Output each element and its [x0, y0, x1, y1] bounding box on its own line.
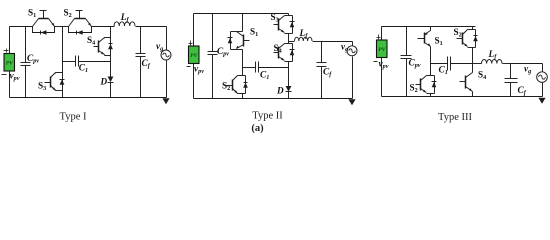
AC grid source vg (Type I) — [161, 50, 171, 60]
switch S4 IGBT with antiparallel diode (Type I) — [94, 37, 113, 57]
wire: grid branch vertical (Type I) — [166, 27, 168, 98]
switch S3 IGBT with antiparallel diode (Type III) — [457, 30, 478, 48]
wire: C1 horizontal link (Type I) — [63, 61, 111, 63]
wire: Type II top rail — [194, 13, 289, 15]
label S3 (Type II) — [271, 12, 279, 24]
minus terminal marker (Type II PV) — [187, 66, 191, 68]
capacitor Cf (Type II) — [317, 63, 327, 67]
wire: output node to grid branch (Type III) — [511, 63, 543, 65]
wire: leg1 middle (Type III) — [430, 47, 432, 76]
switch S1 IGBT (Type III) — [418, 31, 431, 47]
wire: S2 emitter to bottom rail (Type III) — [430, 94, 432, 97]
wire: Cf branch (Type II) — [321, 42, 323, 99]
label Cf (Type II) — [323, 68, 332, 79]
label Cpv (Type III) — [409, 59, 421, 70]
label v_pv (Type III) — [379, 60, 389, 71]
wire: Type II bottom rail — [194, 98, 353, 100]
wire: Type III top rail — [382, 26, 476, 28]
wire: S2 emitter to bottom rail (Type II) — [242, 94, 244, 99]
label Cpv (Type II) — [217, 47, 229, 58]
wire: Cf branch (Type III) — [510, 64, 512, 97]
capacitor C1 (Type I) — [76, 56, 79, 67]
svg-text:(a): (a) — [251, 123, 264, 134]
AC grid source vg (Type III) — [537, 72, 548, 83]
switch S1 IGBT with antiparallel diode (Type II) — [228, 32, 250, 50]
capacitor Cpv (Type III) — [401, 56, 412, 59]
wire: Lf input link (Type II) — [289, 41, 295, 43]
wire: Type II left branch vertical — [193, 14, 195, 99]
wire: Type II Cpv branch — [212, 14, 214, 99]
wire: S3 emitter to bottom rail (Type I) — [62, 91, 64, 98]
wire: leg1 top (Type III) — [430, 27, 432, 31]
label D (Type II) — [276, 86, 284, 96]
wire: leg1 top (Type II) — [242, 14, 244, 32]
wire: Lf to output node (Type II) — [313, 41, 322, 43]
label S2 (Type III) — [410, 83, 418, 95]
switch S2 IGBT with antiparallel diode (Type III) — [416, 76, 437, 94]
capacitor C1 (Type III) — [448, 57, 451, 71]
wire: Type I bottom rail — [10, 97, 167, 99]
label C1 (Type II) — [260, 71, 269, 82]
wire: D to bottom rail (Type I) — [110, 83, 112, 98]
label S4 (Type III) — [478, 70, 486, 82]
inductor Lf (Type II) — [295, 37, 313, 41]
wire: leg2 top (Type III) — [472, 27, 474, 30]
wire: leg2 top (Type II) — [288, 14, 290, 16]
switch S2 with antiparallel diode (Type I) — [69, 11, 92, 35]
label Lf (Type II) — [299, 29, 309, 40]
label S4 (Type II) — [274, 43, 282, 55]
label S3 (Type III) — [454, 27, 462, 39]
wire: S4 to C1 node to diode D (Type I) — [110, 56, 112, 77]
wire: junction drop between S1 and S2 (Type I) — [62, 27, 64, 73]
ground (Type I) — [162, 98, 169, 104]
minus terminal marker (Type I PV) — [2, 74, 7, 76]
switch S3 IGBT with antiparallel diode (Type I) — [45, 72, 65, 92]
label Lf (Type III) — [488, 50, 498, 61]
switch S2 IGBT with antiparallel diode (Type II) — [227, 76, 248, 94]
wire: Type III Cpv branch — [406, 27, 408, 97]
ground (Type III) — [538, 98, 545, 104]
switch S1 with antiparallel diode (Type I) — [33, 11, 55, 35]
wire: Type I Cpv branch — [25, 27, 27, 98]
label S3 (Type I) — [38, 81, 46, 93]
solar panel PV (Type I) — [4, 54, 15, 72]
wire: grid branch vertical (Type II) — [352, 42, 354, 99]
capacitor Cpv (Type I) — [21, 63, 31, 66]
label C1 (Type III) — [439, 66, 448, 77]
wire: Type I left branch vertical — [9, 27, 11, 98]
plus terminal marker (Type II PV) — [189, 41, 193, 46]
solar panel PV (Type III) — [377, 40, 388, 58]
label S1 (Type II) — [250, 27, 258, 39]
wire: Type I top rail segments — [10, 26, 167, 28]
label D (Type I) — [100, 77, 108, 87]
wire: C1 horizontal link (Type II) — [243, 67, 289, 69]
plus terminal marker (Type I PV) — [4, 49, 9, 53]
diode D (Type I) — [108, 77, 114, 83]
wire: output node to grid branch (Type II) — [322, 41, 353, 43]
label S2 (Type I) — [64, 8, 72, 20]
label v_pv (Type I) — [10, 72, 20, 83]
label S4 (Type I) — [87, 35, 95, 47]
diode D (Type II) — [286, 86, 292, 92]
wire: C1 horizontal link (Type III) — [431, 63, 473, 65]
caption Type I — [60, 112, 87, 123]
label vg (Type II) — [341, 43, 348, 54]
wire: S4 emitter to diode D (Type II) — [288, 62, 290, 87]
AC grid source vg (Type II) — [347, 46, 357, 56]
inductor Lf (Type I) — [114, 22, 135, 26]
svg-text:D: D — [276, 86, 284, 96]
wire: D to bottom rail (Type II) — [288, 92, 290, 99]
wire: Type III bottom rail — [382, 96, 543, 98]
svg-text:Type III: Type III — [438, 112, 472, 123]
caption Type III — [438, 112, 472, 123]
ground (Type II) — [348, 99, 355, 105]
wire: leg2 S3 to Lf node (Type II) — [288, 34, 290, 44]
solar panel PV (Type II) — [189, 46, 200, 64]
wire: Cf branch (Type I) — [140, 27, 142, 98]
label S2 (Type II) — [222, 81, 230, 93]
label Cf (Type III) — [518, 86, 527, 97]
switch S3 IGBT with antiparallel diode (Type II) — [274, 16, 295, 34]
wire: leg1 middle (Type II) — [242, 50, 244, 76]
caption Type II — [252, 111, 283, 122]
label C1 (Type I) — [79, 64, 88, 75]
label Cf (Type I) — [142, 59, 151, 70]
switch S4 IGBT (Type III) — [460, 73, 473, 92]
wire: Lf input link (Type III) — [473, 63, 482, 65]
wire: grid branch vertical (Type III) — [542, 64, 544, 97]
caption (a) — [251, 123, 264, 134]
svg-text:D: D — [100, 77, 108, 87]
wire: S4 branch from rail (Type I) — [110, 27, 112, 38]
wire: Type III left branch vertical — [381, 27, 383, 97]
plus terminal marker (Type III PV) — [377, 35, 381, 40]
label S1 (Type I) — [28, 8, 36, 20]
inductor Lf (Type III) — [482, 60, 503, 64]
label Lf (Type I) — [120, 13, 130, 24]
capacitor Cf (Type III) — [505, 79, 518, 83]
capacitor Cpv (Type II) — [208, 52, 218, 55]
wire: S4 emitter to bottom rail (Type III) — [472, 92, 474, 97]
label Cpv (Type I) — [27, 54, 39, 65]
label vg (Type III) — [524, 65, 531, 76]
minus terminal marker (Type III PV) — [374, 61, 378, 63]
label S1 (Type III) — [435, 36, 443, 48]
svg-text:Type I: Type I — [60, 112, 87, 123]
wire: Lf to output node (Type III) — [503, 63, 511, 65]
capacitor C1 (Type II) — [256, 62, 259, 73]
svg-text:Type II: Type II — [252, 111, 283, 122]
switch S4 IGBT with antiparallel diode (Type II) — [274, 44, 295, 62]
label vg (Type I) — [156, 42, 163, 53]
label v_pv (Type II) — [194, 65, 204, 76]
wire: leg2 S3 to C1/Lf node (Type III) — [472, 48, 474, 73]
capacitor Cf (Type I) — [136, 54, 146, 57]
